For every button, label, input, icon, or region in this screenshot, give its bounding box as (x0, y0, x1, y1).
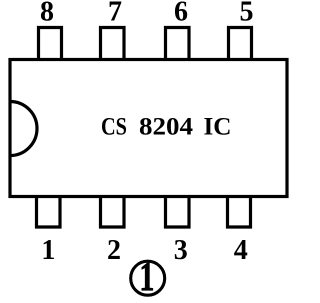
svg-text:CS8204IC: CS8204IC (101, 114, 232, 141)
svg-text:3: 3 (174, 235, 188, 266)
svg-text:4: 4 (234, 235, 248, 266)
svg-text:5: 5 (240, 0, 254, 28)
svg-text:1: 1 (139, 253, 154, 299)
svg-text:1: 1 (41, 235, 55, 266)
svg-text:2: 2 (107, 235, 121, 266)
svg-text:8: 8 (40, 0, 54, 28)
svg-text:7: 7 (108, 0, 122, 28)
svg-text:6: 6 (174, 0, 188, 28)
